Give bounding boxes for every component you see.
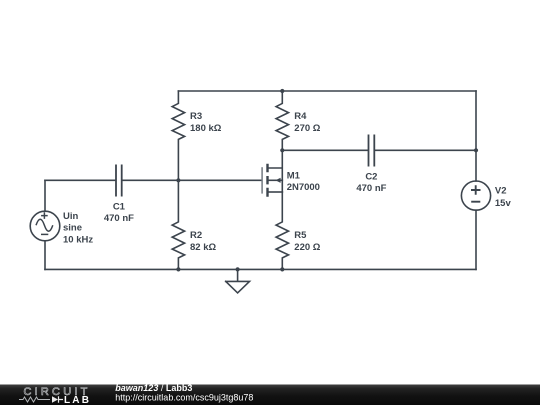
svg-text:470 nF: 470 nF (356, 183, 386, 194)
node dot top R4 (280, 89, 284, 93)
capacitor C1 plates (116, 165, 122, 195)
source Uin plus sign (41, 212, 48, 219)
source Uin sine (36, 219, 53, 231)
resistor R5 (276, 192, 288, 269)
wire C2 left (282, 149, 367, 151)
wire left upper (44, 180, 46, 211)
svg-text:220 Ω: 220 Ω (294, 242, 320, 253)
svg-text:R2: R2 (190, 230, 202, 241)
svg-text:sine: sine (63, 223, 82, 234)
svg-text:2N7000: 2N7000 (287, 182, 320, 193)
node dot bottom R2 (176, 267, 180, 271)
source V2 minus sign (471, 201, 480, 203)
svg-text:bawan123 / Labb3: bawan123 / Labb3 (115, 383, 192, 393)
ground (226, 269, 250, 293)
svg-text:C2: C2 (365, 171, 377, 182)
svg-text:R5: R5 (294, 230, 307, 241)
transistor M1 drain wire (269, 150, 283, 192)
transistor M1 body wire (269, 179, 283, 181)
node dot bottom R5 (280, 267, 284, 271)
logo diode (52, 396, 58, 402)
source V2 circle (461, 181, 490, 210)
source Uin circle (30, 211, 60, 241)
source V2 plus sign (471, 185, 481, 195)
wire bottom rail (45, 268, 476, 270)
svg-text:C1: C1 (113, 201, 126, 212)
node dot gate (176, 178, 180, 182)
svg-text:180 kΩ: 180 kΩ (190, 123, 222, 134)
transistor M1 source wire (269, 191, 283, 193)
wire right lower (475, 210, 477, 269)
resistor R4 (276, 91, 288, 150)
svg-text:15v: 15v (495, 198, 512, 209)
svg-text:10 kHz: 10 kHz (63, 234, 93, 245)
svg-text:R4: R4 (294, 111, 307, 122)
node dot bottom ground (236, 267, 240, 271)
wire left lower (44, 241, 46, 270)
svg-text:V2: V2 (495, 186, 507, 197)
transistor M1 channel bars (266, 164, 268, 197)
logo resistor squiggle (19, 397, 50, 402)
wire right upper (475, 91, 477, 181)
svg-text:M1: M1 (287, 170, 301, 181)
node dot right C2 (474, 148, 478, 152)
wire C1 left (45, 179, 115, 181)
wire C1 right to gate (123, 179, 262, 181)
transistor M1 gate plate (261, 167, 263, 193)
svg-text:470 nF: 470 nF (104, 213, 134, 224)
node dot drain (280, 148, 284, 152)
transistor M1 arrow head (275, 178, 280, 183)
footer bar (0, 385, 540, 405)
svg-text:LAB: LAB (64, 395, 91, 405)
capacitor C2 plates (369, 135, 375, 165)
svg-text:270 Ω: 270 Ω (294, 123, 320, 134)
resistor R2 (172, 180, 184, 269)
wire C2 right (375, 149, 476, 151)
source Uin minus sign (41, 233, 48, 235)
svg-text:http://circuitlab.com/csc9uj3t: http://circuitlab.com/csc9uj3tg8u78 (115, 393, 253, 403)
svg-text:82 kΩ: 82 kΩ (190, 242, 216, 253)
svg-text:Uin: Uin (63, 211, 79, 222)
resistor R3 (172, 91, 184, 180)
svg-text:R3: R3 (190, 111, 202, 122)
wire top rail (178, 90, 476, 92)
